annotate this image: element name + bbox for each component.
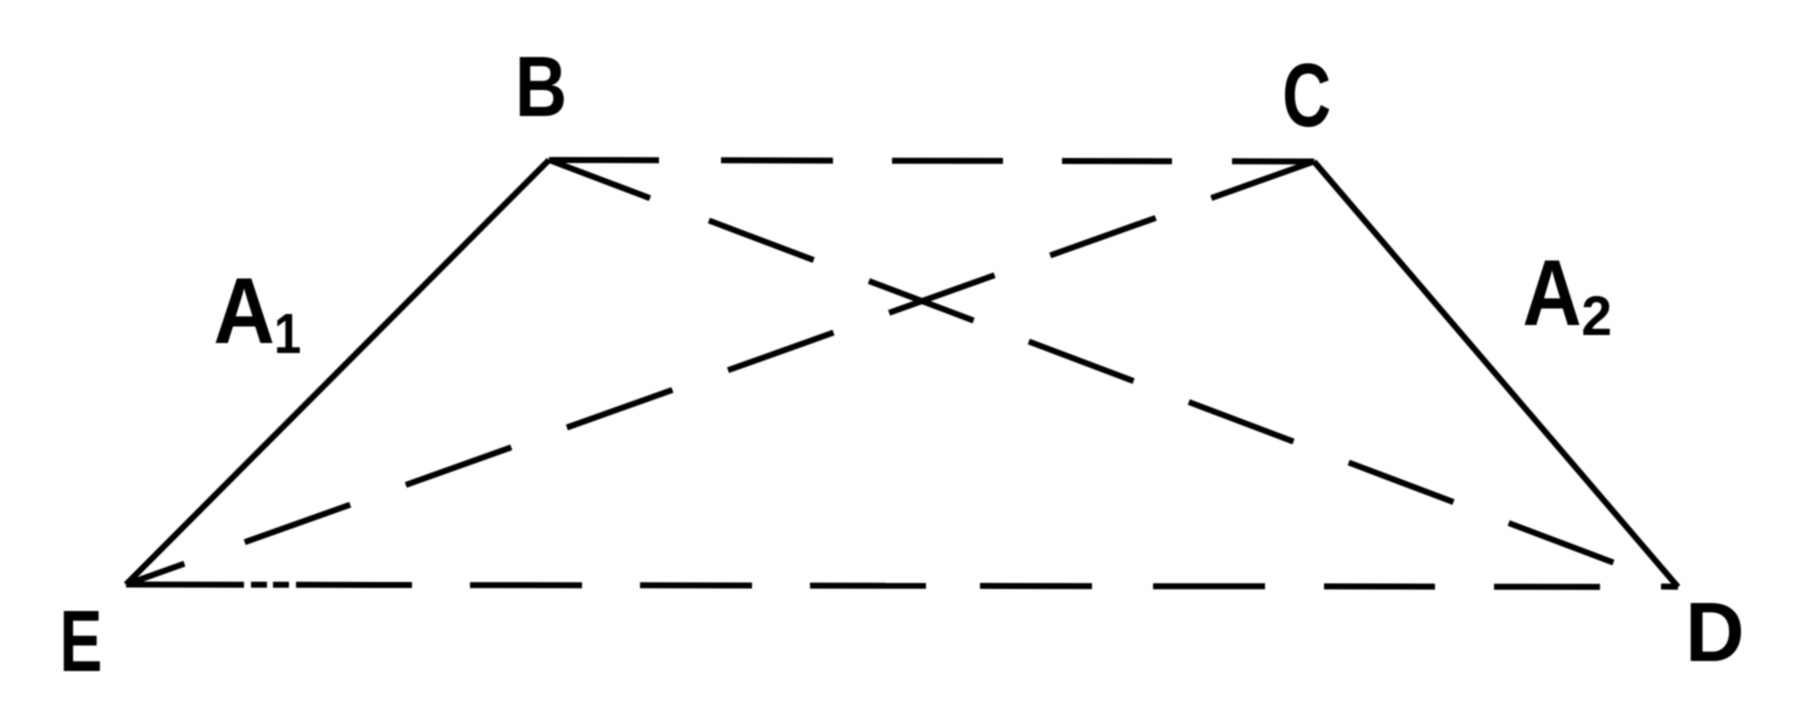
- svg-text:E: E: [60, 594, 103, 691]
- foot stub at vertex D: [1661, 584, 1678, 590]
- svg-text:1: 1: [274, 303, 301, 366]
- label A2: [1523, 240, 1612, 348]
- vertex label D: [1685, 585, 1744, 679]
- svg-text:A: A: [213, 258, 274, 363]
- svg-text:D: D: [1685, 585, 1744, 679]
- vertex label B: [515, 38, 567, 134]
- svg-text:A: A: [1523, 240, 1582, 346]
- diagonal EC (dashed): [126, 161, 1314, 584]
- svg-text:C: C: [1282, 45, 1331, 146]
- svg-text:B: B: [515, 38, 567, 134]
- side ED (dashed bottom edge): [126, 585, 1600, 587]
- side BC (dashed top edge): [549, 160, 1314, 162]
- diagonal BD (dashed): [549, 160, 1613, 563]
- svg-text:2: 2: [1581, 285, 1612, 347]
- side EB (solid leg A1): [126, 160, 549, 585]
- vertex label E: [60, 594, 103, 691]
- vertex label C: [1282, 45, 1331, 146]
- label A1: [213, 258, 301, 366]
- side CD (solid leg A2): [1314, 162, 1678, 588]
